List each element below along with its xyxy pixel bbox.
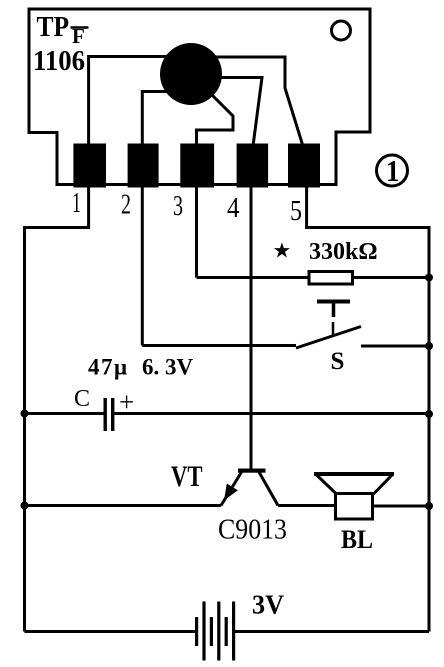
svg-text:TP: TP	[37, 11, 70, 43]
svg-text:4: 4	[227, 193, 240, 224]
svg-text:C: C	[74, 386, 90, 412]
svg-text:BL: BL	[341, 525, 373, 554]
svg-text:5: 5	[290, 196, 302, 227]
svg-text:2: 2	[121, 190, 131, 221]
svg-text:S: S	[331, 348, 345, 375]
svg-text:1106: 1106	[33, 45, 85, 77]
svg-text:6. 3V: 6. 3V	[142, 355, 194, 380]
svg-text:330kΩ: 330kΩ	[309, 239, 378, 265]
svg-text:VT: VT	[171, 460, 203, 493]
svg-text:+: +	[119, 387, 134, 417]
svg-text:1: 1	[386, 153, 400, 188]
svg-text:3V: 3V	[252, 590, 284, 620]
svg-text:C9013: C9013	[218, 515, 287, 546]
svg-text:47μ: 47μ	[88, 355, 129, 380]
svg-text:★: ★	[273, 239, 292, 263]
svg-text:1: 1	[72, 188, 81, 219]
svg-text:3: 3	[173, 191, 183, 222]
